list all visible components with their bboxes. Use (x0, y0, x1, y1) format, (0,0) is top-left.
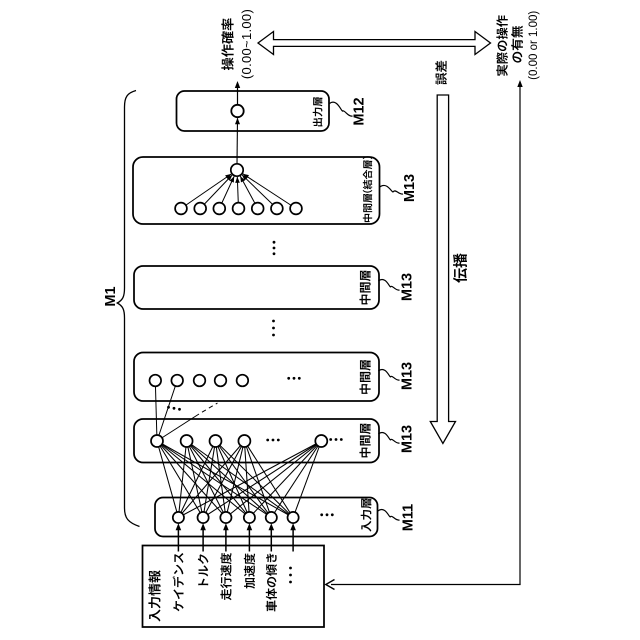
text hidden layer 3 (359, 360, 370, 394)
dots between hidden2 and hidden3 (272, 320, 275, 323)
text cadence (173, 553, 184, 611)
dots hidden4 ellipsis a (266, 439, 269, 442)
wires hidden3->hidden4 (155, 381, 157, 442)
svg-text:M12: M12 (352, 97, 368, 125)
svg-text:M13: M13 (400, 362, 416, 390)
leader M13 h2 (378, 280, 399, 291)
leader M13 h3 (378, 370, 399, 381)
text propagation (453, 253, 467, 283)
hollow arrow back-propagation (430, 95, 455, 444)
wires: fan into combine node (181, 174, 231, 209)
wire combine->output (236, 118, 239, 164)
box input-layer M11 (155, 498, 378, 537)
dots hidden4 ellipsis b (329, 438, 332, 441)
svg-text:M13: M13 (400, 425, 416, 453)
text hidden(combine) layer (363, 156, 373, 222)
dots between combine and hidden2 (273, 241, 276, 244)
svg-text:M11: M11 (401, 504, 417, 531)
box hidden-layer M13 (5 nodes) (134, 353, 379, 402)
nodes input-layer row (173, 512, 184, 523)
node combine neuron (231, 164, 243, 176)
svg-text:(0.00 or 1.00): (0.00 or 1.00) (528, 11, 540, 80)
text input info (148, 570, 160, 621)
text input layer (361, 499, 372, 532)
text torque (198, 554, 209, 585)
text actual operation l1 (496, 15, 508, 76)
wire feedback actual-operation (519, 86, 521, 585)
dots input ellipsis (289, 567, 292, 570)
leader M11 (378, 510, 400, 521)
arrows input-info -> input-layer (177, 529, 179, 552)
leader M13 h4 (378, 433, 399, 444)
svg-text:(0.00~1.00): (0.00~1.00) (239, 9, 254, 79)
dots hidden3 ellipsis (287, 377, 290, 380)
box output-layer M12 (177, 91, 330, 131)
text hidden layer 2 (359, 271, 370, 305)
svg-text:M13: M13 (402, 174, 418, 202)
wire output->probability (237, 87, 239, 105)
box hidden-layer (combine) M13 (133, 157, 380, 224)
text acceleration (244, 553, 255, 588)
leader M12 (330, 102, 353, 116)
text speed (220, 553, 231, 600)
node output neuron (231, 105, 243, 117)
mesh hidden4 x input-layer (157, 441, 178, 518)
text body tilt (266, 554, 277, 612)
brace M1 (117, 91, 139, 527)
box input-info (143, 546, 325, 628)
text error (435, 61, 447, 85)
nodes hidden4 row (151, 435, 163, 447)
box hidden-layer M13 (lower) (134, 419, 379, 463)
dots ellipsis connections (167, 406, 170, 409)
text output layer (313, 97, 323, 126)
svg-text:M1: M1 (103, 286, 119, 306)
box hidden-layer M13 (empty) (134, 266, 379, 309)
svg-text:M13: M13 (400, 273, 416, 301)
text actual operation l2 (511, 26, 523, 63)
text operation probability (221, 18, 233, 70)
nodes combine-layer row (175, 203, 187, 215)
leader M13 combine (380, 185, 403, 194)
nodes hidden3 row (150, 375, 162, 387)
dots input-layer ellipsis (320, 513, 323, 516)
text hidden layer 4 (359, 424, 370, 458)
double arrow error comparison (258, 32, 491, 55)
